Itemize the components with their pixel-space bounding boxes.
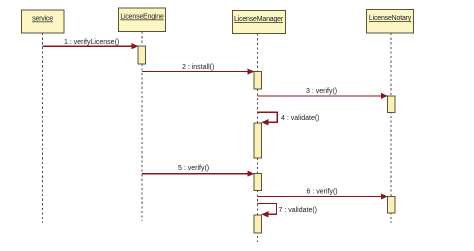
head box LicenseEngine bbox=[119, 8, 166, 32]
message 2 : install() bbox=[142, 64, 254, 75]
message 1 : verifyLicense() bbox=[43, 39, 139, 49]
lifeline LicenseEngine bbox=[141, 32, 143, 222]
activation bar E on LicenseManager bbox=[254, 215, 262, 233]
svg-text:LicenseManager: LicenseManager bbox=[234, 16, 284, 23]
svg-text:5 : verify(): 5 : verify() bbox=[178, 165, 209, 172]
lifeline LicenseManager bbox=[257, 34, 259, 243]
activation bar F on LicenseNotary bbox=[387, 96, 395, 112]
svg-text:LicenseEngine: LicenseEngine bbox=[120, 14, 164, 21]
head box LicenseNotary bbox=[367, 10, 414, 34]
svg-text:LicenseNotary: LicenseNotary bbox=[369, 15, 412, 22]
svg-text:2 : install(): 2 : install() bbox=[182, 64, 214, 71]
svg-text:3 : verify(): 3 : verify() bbox=[306, 88, 337, 95]
message 6 : verify() bbox=[258, 189, 388, 200]
message 7 : validate() (self message on LicenseManager) bbox=[258, 204, 318, 218]
svg-text:1 : verifyLicense(): 1 : verifyLicense() bbox=[64, 39, 119, 46]
lifeline LicenseNotary bbox=[390, 33, 392, 223]
message 5 : verify() bbox=[142, 165, 254, 177]
activation bar A on LicenseEngine bbox=[138, 46, 146, 64]
activation bar B on LicenseManager bbox=[254, 72, 262, 90]
activation bar G on LicenseNotary bbox=[387, 197, 395, 214]
activation bar D on LicenseManager bbox=[254, 174, 262, 191]
message 4 : validate() (self message on LicenseManager) bbox=[258, 112, 320, 125]
svg-text:service: service bbox=[32, 16, 53, 23]
message 3 : verify() bbox=[258, 88, 388, 99]
head box LicenseManager bbox=[233, 11, 286, 34]
activation bar C on LicenseManager (tall) bbox=[254, 123, 262, 158]
svg-text:6 : verify(): 6 : verify() bbox=[307, 189, 338, 196]
svg-text:7 : validate(): 7 : validate() bbox=[279, 207, 318, 214]
head box service bbox=[22, 10, 65, 33]
lifeline service bbox=[42, 33, 44, 223]
svg-text:4 : validate(): 4 : validate() bbox=[281, 115, 320, 122]
